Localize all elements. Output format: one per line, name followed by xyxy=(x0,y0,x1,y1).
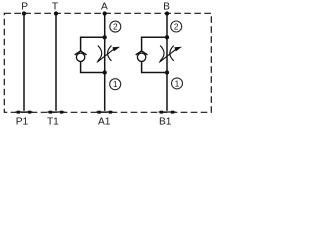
port T1 connection symbol xyxy=(48,111,65,114)
pin label 1 (valve1) xyxy=(110,79,121,90)
svg-text:1: 1 xyxy=(175,78,180,88)
svg-text:B: B xyxy=(163,1,170,12)
wire valve2 bypass branch xyxy=(142,37,167,72)
check valve CV2 seat xyxy=(136,51,148,55)
svg-text:P1: P1 xyxy=(16,117,29,127)
wire P line (P to P1) xyxy=(23,13,25,111)
node A junction dot xyxy=(103,11,107,15)
node B junction dot xyxy=(165,11,169,15)
svg-text:P: P xyxy=(21,1,28,12)
svg-text:A1: A1 xyxy=(98,117,111,127)
throttle valve RV1 adjustment arrow xyxy=(97,47,120,63)
node valve2 bottom junction xyxy=(165,70,169,74)
node P junction dot xyxy=(22,11,26,15)
port P1 connection symbol xyxy=(16,111,33,114)
throttle valve RV1 arcs xyxy=(98,46,112,61)
throttle valve RV2 adjustment arrow xyxy=(159,47,182,63)
svg-text:T1: T1 xyxy=(47,117,59,127)
node valve1 top junction xyxy=(103,35,107,39)
wire valve1 bypass branch xyxy=(81,37,105,72)
check valve CV1 seat xyxy=(75,51,87,55)
svg-text:2: 2 xyxy=(174,22,179,32)
port B1 connection symbol xyxy=(159,111,176,114)
svg-text:1: 1 xyxy=(113,79,118,89)
node valve1 bottom junction xyxy=(103,70,107,74)
throttle valve RV2 arcs xyxy=(160,46,174,61)
enclosure dashed boundary (manifold block outline) xyxy=(4,13,211,112)
svg-text:2: 2 xyxy=(113,22,118,32)
node T junction dot xyxy=(54,11,58,15)
wire A line (A to A1 through throttle) xyxy=(104,13,106,111)
svg-text:T: T xyxy=(52,1,58,12)
pin label 2 (valve1) xyxy=(110,21,121,32)
port A1 connection symbol xyxy=(96,111,113,114)
check valve CV2 ball xyxy=(137,53,145,61)
pin label 2 (valve2) xyxy=(171,21,182,32)
wire T line (T to T1) xyxy=(55,13,57,111)
pin label 1 (valve2) xyxy=(172,78,183,89)
svg-text:A: A xyxy=(101,1,108,12)
svg-text:B1: B1 xyxy=(159,117,172,127)
node valve2 top junction xyxy=(165,35,169,39)
wire B line (B to B1 through throttle) xyxy=(166,13,168,111)
check valve CV1 ball xyxy=(76,53,84,61)
